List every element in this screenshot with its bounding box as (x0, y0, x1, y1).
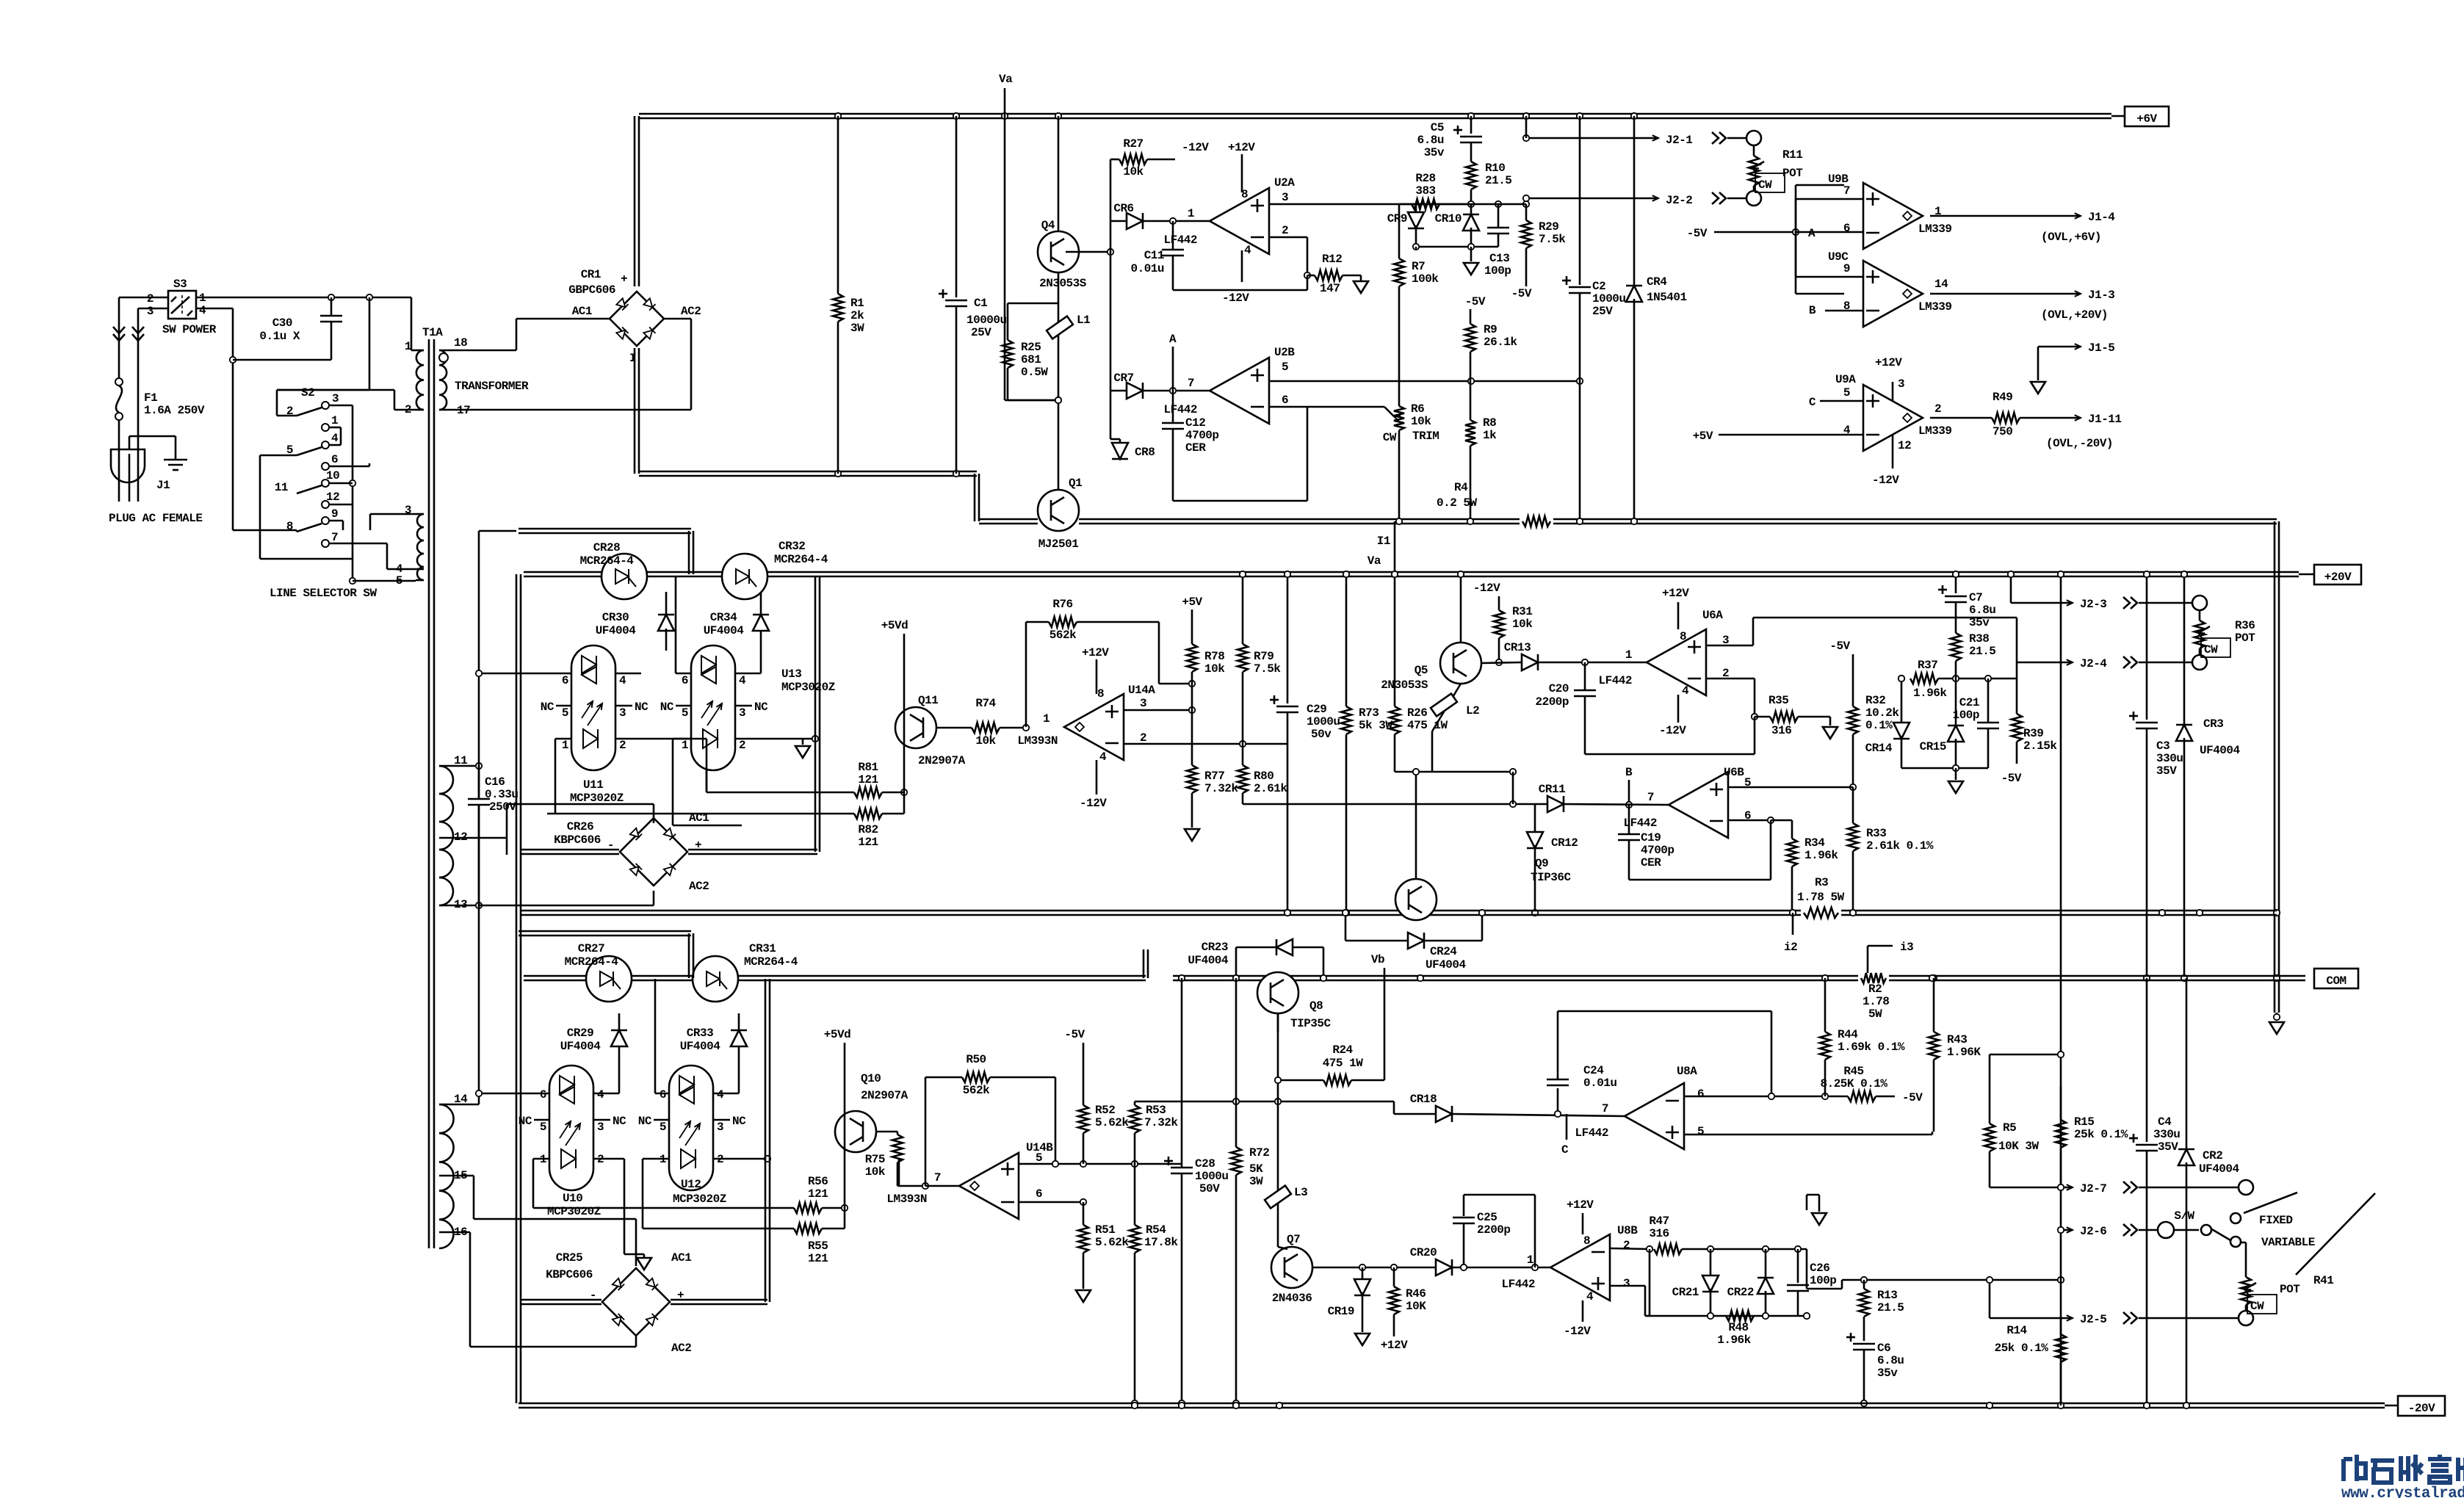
svg-text:R51: R51 (1095, 1223, 1115, 1237)
svg-text:10K 3W: 10K 3W (1998, 1140, 2040, 1153)
svg-text:R72: R72 (1249, 1146, 1269, 1159)
svg-text:C20: C20 (1549, 682, 1569, 695)
svg-text:2: 2 (1140, 731, 1146, 745)
svg-text:CR11: CR11 (1539, 783, 1565, 796)
connector J2-7 (1990, 1187, 2073, 1189)
resistor R72 (1235, 978, 1238, 1147)
optocoupler U13 (691, 645, 735, 770)
capacitor C4 (2146, 978, 2148, 1142)
svg-text:Va: Va (1368, 554, 1381, 568)
svg-text:CR14: CR14 (1865, 742, 1893, 755)
svg-text:CR31: CR31 (749, 942, 776, 955)
optocoupler U10 (549, 1065, 593, 1190)
svg-text:100p: 100p (1810, 1274, 1836, 1287)
bus -20V rail (519, 1403, 2385, 1405)
svg-text:C28: C28 (1195, 1157, 1215, 1170)
svg-text:C12: C12 (1185, 416, 1205, 430)
svg-text:U6B: U6B (1724, 766, 1744, 779)
svg-text:U9A: U9A (1835, 373, 1856, 386)
svg-text:Q4: Q4 (1041, 219, 1055, 232)
svg-text:330u: 330u (2153, 1128, 2180, 1141)
svg-text:U11: U11 (583, 778, 603, 792)
diode CR14 (1901, 679, 1903, 725)
svg-text:-5V: -5V (1687, 227, 1708, 240)
resistor R50 (925, 1077, 927, 1186)
resistor R1 (837, 116, 839, 294)
svg-text:-5V: -5V (2001, 772, 2022, 785)
svg-text:Vb: Vb (1371, 953, 1384, 966)
svg-text:3: 3 (597, 1121, 604, 1134)
connector J2-2 (1526, 198, 1658, 200)
svg-text:1.78 5W: 1.78 5W (1797, 891, 1845, 904)
svg-text:C26: C26 (1810, 1262, 1829, 1275)
label -20V box (2398, 1396, 2445, 1416)
svg-text:C19: C19 (1641, 831, 1661, 844)
svg-text:CR20: CR20 (1410, 1246, 1437, 1259)
svg-text:Q8: Q8 (1309, 999, 1323, 1013)
wire R24 (1323, 1075, 1351, 1085)
svg-text:6: 6 (331, 453, 338, 466)
capacitor C1 (955, 116, 958, 297)
svg-text:0.33u: 0.33u (485, 788, 519, 801)
svg-text:35V: 35V (2156, 764, 2177, 778)
op-amp U2A (1210, 188, 1269, 254)
T1A secondary 11-12-13 (439, 766, 453, 794)
wire A to U9 (1795, 185, 1797, 232)
wire U6A out (1706, 645, 1753, 647)
svg-text:35v: 35v (1424, 146, 1445, 159)
svg-text:+5Vd: +5Vd (881, 619, 908, 632)
svg-text:T1A: T1A (422, 326, 443, 339)
svg-text:CR27: CR27 (578, 942, 604, 955)
svg-text:5: 5 (1036, 1151, 1042, 1165)
svg-text:J2-3: J2-3 (2080, 598, 2106, 611)
svg-text:CR21: CR21 (1672, 1286, 1699, 1299)
svg-text:CR23: CR23 (1202, 941, 1228, 954)
svg-text:R9: R9 (1484, 323, 1497, 336)
resistor R12 (1307, 275, 1315, 277)
U10 wires (479, 1093, 549, 1095)
svg-text:475 1W: 475 1W (1407, 719, 1448, 732)
svg-text:CW: CW (2250, 1300, 2264, 1313)
svg-text:J1-5: J1-5 (2088, 341, 2114, 355)
svg-text:6.8u: 6.8u (1417, 134, 1444, 147)
capacitor C24 (1557, 1088, 1559, 1114)
svg-text:25k 0.1%: 25k 0.1% (2074, 1128, 2128, 1141)
svg-text:562k: 562k (963, 1084, 990, 1097)
diode CR19 (1362, 1267, 1364, 1281)
svg-text:LM339: LM339 (1918, 424, 1952, 438)
resistor R3 (1801, 908, 1841, 918)
-20V rail dots (1132, 1403, 1138, 1408)
svg-text:2N2907A: 2N2907A (861, 1089, 908, 1102)
svg-text:12: 12 (326, 491, 339, 504)
wire U8A in6 (1685, 1096, 1848, 1098)
resistor R39 (2016, 679, 2018, 714)
svg-text:7: 7 (1647, 791, 1654, 804)
optocoupler U12 (669, 1065, 713, 1190)
svg-text:7.5k: 7.5k (1539, 233, 1566, 246)
svg-text:2200p: 2200p (1477, 1223, 1511, 1237)
ground right riser (2276, 1013, 2278, 1021)
svg-text:2N2907A: 2N2907A (918, 754, 966, 767)
svg-text:KBPC606: KBPC606 (546, 1268, 593, 1281)
inductor L2 (1432, 684, 1461, 731)
svg-text:R37: R37 (1918, 659, 1937, 672)
cluster bottom (1901, 767, 1988, 770)
svg-text:U12: U12 (681, 1178, 701, 1191)
transistor Q8 (1257, 972, 1298, 1013)
op-amp U6A (1647, 629, 1706, 695)
bus left top box (519, 528, 691, 530)
resistor R75 (897, 1132, 899, 1135)
svg-text:-12V: -12V (1473, 582, 1500, 595)
svg-text:100p: 100p (1484, 264, 1511, 278)
resistor R49 (1992, 413, 2020, 423)
S2 wiring (277, 389, 369, 391)
bridge CR26 (620, 818, 687, 886)
svg-text:+12V: +12V (1228, 141, 1255, 154)
svg-text:250V: 250V (489, 800, 516, 814)
svg-text:100k: 100k (1412, 272, 1439, 286)
svg-text:CR22: CR22 (1727, 1286, 1754, 1299)
svg-text:3: 3 (739, 706, 745, 720)
svg-text:R13: R13 (1877, 1289, 1897, 1302)
svg-text:J1-3: J1-3 (2088, 289, 2114, 302)
svg-text:R33: R33 (1866, 827, 1886, 840)
wire rail dots (835, 113, 841, 119)
svg-text:2: 2 (1282, 224, 1288, 237)
svg-text:6: 6 (562, 674, 568, 687)
svg-text:+12V: +12V (1082, 646, 1109, 659)
svg-text:NC: NC (754, 701, 768, 714)
svg-text:CR32: CR32 (778, 540, 805, 553)
bus right riser (2274, 521, 2276, 1013)
resistor R15 (2060, 1086, 2062, 1120)
plug J1 (111, 449, 145, 482)
SCR CR28 (601, 554, 647, 599)
svg-text:25V: 25V (1592, 305, 1613, 318)
svg-text:1000u: 1000u (1307, 715, 1340, 728)
svg-text:AC2: AC2 (671, 1342, 691, 1355)
resistor R82 (547, 813, 854, 815)
svg-text:R29: R29 (1539, 220, 1558, 234)
svg-text:10k: 10k (1204, 662, 1225, 676)
svg-text:C29: C29 (1307, 703, 1326, 716)
resistor R81 (707, 792, 854, 794)
svg-text:R24: R24 (1332, 1043, 1353, 1057)
svg-text:2: 2 (739, 739, 745, 752)
svg-text:R47: R47 (1649, 1215, 1669, 1228)
svg-text:MCR264-4: MCR264-4 (774, 553, 828, 566)
U8B supplies (1582, 1213, 1584, 1234)
resistor R45 (1848, 1091, 1876, 1101)
wire U2B out5 (1269, 380, 1580, 383)
svg-text:-12V: -12V (1872, 474, 1899, 487)
svg-text:1.96k: 1.96k (1913, 687, 1947, 700)
svg-text:U2A: U2A (1274, 176, 1295, 189)
svg-text:R1: R1 (850, 297, 864, 310)
svg-text:3: 3 (147, 305, 153, 318)
diode CR3 (2183, 574, 2186, 726)
svg-text:MJ2501: MJ2501 (1038, 538, 1079, 551)
svg-text:12: 12 (1898, 439, 1911, 452)
wire AC2 (664, 318, 691, 320)
svg-text:0.1u X: 0.1u X (259, 330, 300, 343)
U9C wires (1795, 232, 1797, 277)
svg-text:CER: CER (1641, 856, 1661, 869)
label +6V box (2125, 106, 2169, 126)
svg-text:1: 1 (682, 739, 688, 752)
svg-text:-12V: -12V (1564, 1325, 1591, 1338)
svg-text:2N4036: 2N4036 (1272, 1292, 1312, 1305)
wire AC1 (516, 318, 610, 320)
svg-text:3W: 3W (1249, 1175, 1263, 1188)
svg-text:9: 9 (1843, 262, 1850, 275)
svg-text:4: 4 (199, 304, 206, 317)
svg-text:5.62k: 5.62k (1095, 1236, 1129, 1249)
T1A secondary 14-15-16 (439, 1104, 454, 1133)
svg-text:U14A: U14A (1128, 684, 1155, 697)
wire R80 out (1243, 803, 1547, 806)
resistor R46 (1393, 1267, 1395, 1287)
diode CR13 (1481, 662, 1521, 663)
resistor R76 (1025, 622, 1027, 727)
svg-text:7.32k: 7.32k (1204, 782, 1238, 795)
resistor R34 (1791, 820, 1793, 839)
svg-text:3: 3 (332, 392, 339, 405)
svg-text:10k: 10k (865, 1165, 886, 1179)
svg-text:R43: R43 (1947, 1033, 1967, 1046)
wire J2 col (2060, 574, 2062, 1405)
svg-text:UF4004: UF4004 (1426, 958, 1467, 971)
svg-text:7.5k: 7.5k (1254, 662, 1281, 676)
fuse F1 (118, 345, 120, 378)
wire U6B fb6 (1728, 819, 1771, 822)
svg-text:AC2: AC2 (681, 305, 701, 318)
capacitor C28 (1181, 978, 1183, 1164)
resistor R43 (1933, 978, 1935, 1032)
resistor R26 (1394, 521, 1396, 706)
svg-text:316: 316 (1771, 724, 1791, 737)
svg-text:U8B: U8B (1617, 1224, 1638, 1237)
svg-text:CR7: CR7 (1113, 372, 1133, 385)
svg-text:AC1: AC1 (671, 1251, 691, 1264)
bus +6V rail (639, 113, 2111, 115)
svg-text:J1-11: J1-11 (2088, 413, 2122, 426)
diode CR8 (1110, 391, 1112, 439)
svg-text:R81: R81 (858, 761, 878, 774)
connector J2-6 (2061, 1229, 2073, 1231)
resistor R53 (1130, 1105, 1140, 1133)
svg-text:C24: C24 (1583, 1064, 1604, 1077)
svg-text:POT: POT (2280, 1283, 2300, 1296)
transistor Q4 (1038, 231, 1079, 272)
svg-text:+5V: +5V (1182, 596, 1202, 609)
svg-text:R3: R3 (1815, 876, 1828, 889)
svg-text:UF4004: UF4004 (1188, 954, 1229, 967)
svg-text:2.15k: 2.15k (2023, 739, 2057, 753)
svg-text:R49: R49 (1992, 391, 2012, 404)
svg-text:4: 4 (1682, 684, 1689, 698)
svg-text:MCR264-4: MCR264-4 (580, 554, 635, 568)
svg-text:5k 3W: 5k 3W (1359, 719, 1392, 732)
svg-text:VARIABLE: VARIABLE (2261, 1236, 2315, 1249)
svg-text:R38: R38 (1969, 632, 1989, 645)
svg-text:681: 681 (1021, 353, 1041, 366)
svg-text:R41: R41 (2313, 1274, 2333, 1287)
svg-text:R44: R44 (1838, 1028, 1858, 1041)
capacitor C29 (1287, 574, 1289, 703)
svg-text:(OVL,+20V): (OVL,+20V) (2041, 308, 2108, 322)
T1A primary 1-2 (416, 350, 424, 365)
svg-text:KBPC606: KBPC606 (554, 833, 601, 847)
svg-text:R80: R80 (1254, 770, 1273, 783)
diode CR6 (1110, 220, 1126, 222)
svg-text:10K: 10K (1406, 1300, 1426, 1313)
svg-text:Q9: Q9 (1535, 857, 1548, 870)
bridge CR25 (602, 1268, 670, 1336)
svg-text:+12V: +12V (1567, 1198, 1594, 1212)
T1A secondary 18-17 (439, 350, 447, 365)
svg-text:-12V: -12V (1182, 141, 1209, 154)
svg-text:8: 8 (1097, 687, 1104, 701)
svg-text:121: 121 (808, 1252, 828, 1265)
svg-text:7: 7 (1602, 1102, 1608, 1115)
SCR CR32 (722, 554, 767, 599)
svg-text:6: 6 (1282, 394, 1288, 407)
ground (129, 436, 131, 449)
resistor R48 (1726, 1311, 1754, 1321)
svg-text:R45: R45 (1843, 1065, 1863, 1078)
svg-text:R73: R73 (1359, 706, 1379, 720)
svg-text:R53: R53 (1146, 1104, 1166, 1117)
capacitor C3 (2146, 574, 2148, 720)
svg-text:CR4: CR4 (1647, 275, 1667, 289)
svg-text:-5V: -5V (1064, 1028, 1085, 1041)
capacitor C5 (1470, 116, 1473, 134)
resistor R5 (1989, 1054, 1991, 1123)
CR26 wires (653, 804, 655, 823)
diode CR29 (618, 1013, 621, 1093)
transistor Q11 (895, 707, 936, 748)
svg-text:U6A: U6A (1702, 609, 1723, 622)
capacitor C12 (1172, 391, 1174, 423)
diode CR2 (2186, 978, 2188, 1150)
diode CR20 (1436, 1259, 1452, 1276)
transformer T1A core (428, 339, 430, 1248)
svg-text:B: B (1809, 304, 1816, 317)
svg-text:750: 750 (1992, 425, 2012, 438)
resistor R10 (1466, 162, 1476, 189)
bus mid rail (521, 910, 2277, 912)
svg-text:Q5: Q5 (1415, 664, 1428, 677)
svg-text:MCR264-4: MCR264-4 (744, 955, 798, 969)
svg-text:14: 14 (1934, 278, 1948, 291)
switch S3 (168, 291, 196, 319)
svg-text:3: 3 (405, 504, 411, 517)
diode CR18 (1394, 1113, 1435, 1115)
wire U14B in6 (1019, 1201, 1083, 1204)
svg-text:Q7: Q7 (1287, 1233, 1300, 1246)
pot R36 (2199, 610, 2201, 620)
resistor R7 (1398, 204, 1401, 258)
resistor R37 (1910, 673, 1938, 684)
svg-text:FIXED: FIXED (2259, 1214, 2293, 1227)
svg-text:LM393N: LM393N (1017, 734, 1058, 748)
svg-text:R52: R52 (1095, 1104, 1115, 1117)
svg-text:1: 1 (562, 739, 568, 752)
inductor L1 (1058, 272, 1060, 400)
svg-text:2.61k: 2.61k (1254, 782, 1287, 795)
op-amp U6B (1669, 772, 1728, 838)
watermark graphic (2344, 1455, 2464, 1483)
svg-text:+: + (621, 272, 627, 286)
svg-text:CR13: CR13 (1504, 641, 1531, 654)
svg-text:C21: C21 (1959, 696, 1979, 709)
svg-text:0.01u: 0.01u (1583, 1077, 1617, 1090)
svg-text:5.62k: 5.62k (1095, 1116, 1129, 1129)
svg-text:R82: R82 (858, 823, 878, 836)
wire S3 pin3 (138, 308, 168, 310)
resistor R77 (1191, 710, 1193, 765)
svg-text:383: 383 (1415, 184, 1435, 198)
svg-text:6: 6 (1036, 1187, 1042, 1201)
svg-text:R2: R2 (1868, 983, 1882, 996)
ground R77 (1185, 829, 1199, 841)
svg-text:R39: R39 (2023, 727, 2043, 740)
wire U2B out6 (1269, 406, 1384, 408)
svg-text:C: C (1561, 1143, 1569, 1157)
svg-text:i2: i2 (1784, 941, 1797, 954)
svg-text:R35: R35 (1768, 694, 1788, 707)
bus +20V rail (524, 571, 2299, 573)
svg-text:8.25K 0.1%: 8.25K 0.1% (1820, 1077, 1887, 1090)
svg-text:5: 5 (682, 706, 688, 720)
svg-text:21.5: 21.5 (1877, 1301, 1904, 1314)
svg-text:R79: R79 (1254, 650, 1273, 663)
svg-text:35v: 35v (1969, 616, 1990, 629)
svg-text:475 1W: 475 1W (1323, 1057, 1364, 1070)
svg-text:10: 10 (326, 469, 339, 482)
svg-text:25V: 25V (971, 326, 991, 339)
diode CR10 (1470, 204, 1473, 215)
svg-text:26.1k: 26.1k (1484, 336, 1517, 349)
svg-text:S/W: S/W (2174, 1209, 2194, 1223)
svg-text:R5: R5 (2003, 1121, 2016, 1135)
capacitor C7 (1955, 574, 1957, 593)
svg-text:UF4004: UF4004 (2199, 1162, 2240, 1176)
svg-text:A: A (1169, 333, 1177, 346)
resistor R32 (1848, 706, 1858, 734)
svg-text:121: 121 (808, 1187, 828, 1201)
svg-text:100p: 100p (1953, 709, 1979, 722)
connector J2-1 (1526, 137, 1658, 140)
svg-text:CR8: CR8 (1135, 446, 1155, 459)
svg-text:4: 4 (597, 1088, 604, 1101)
svg-text:7: 7 (1188, 377, 1194, 390)
wire U2A fb (1269, 236, 1307, 239)
svg-text:2N3053S: 2N3053S (1039, 277, 1087, 290)
SCR CR27 (586, 956, 632, 1002)
svg-text:CR10: CR10 (1435, 212, 1462, 225)
cluster CR21 bottom (1650, 1315, 1807, 1317)
resistor R14 (2060, 1318, 2062, 1334)
svg-text:R74: R74 (975, 697, 996, 710)
svg-text:CR25: CR25 (556, 1251, 582, 1264)
svg-text:U8A: U8A (1677, 1065, 1697, 1078)
resistor R47 (1611, 1248, 1650, 1249)
